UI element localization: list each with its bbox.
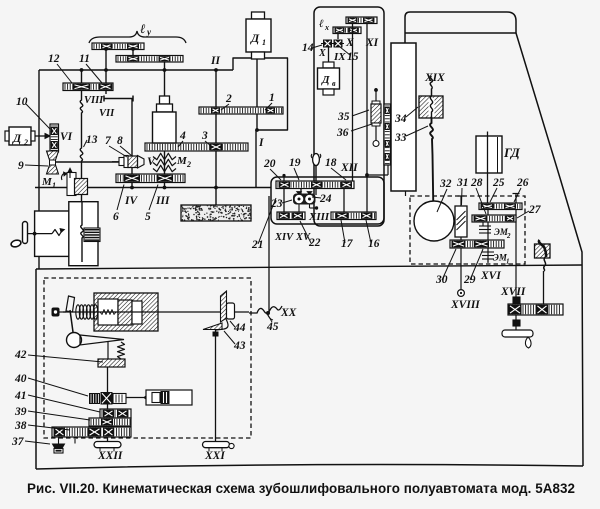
- svg-text:х: х: [324, 23, 329, 32]
- svg-text:XIII: XIII: [308, 211, 330, 223]
- svg-text:2: 2: [23, 138, 28, 147]
- svg-text:21: 21: [251, 239, 264, 251]
- svg-text:32: 32: [439, 178, 452, 190]
- svg-text:ℓ: ℓ: [319, 18, 324, 30]
- svg-text:1: 1: [52, 181, 56, 190]
- svg-text:44: 44: [233, 322, 246, 334]
- svg-text:10: 10: [16, 96, 28, 108]
- svg-text:6: 6: [113, 211, 119, 223]
- svg-text:3: 3: [201, 130, 208, 142]
- svg-text:39: 39: [14, 406, 27, 418]
- svg-text:17: 17: [341, 238, 354, 250]
- svg-text:IV: IV: [124, 195, 138, 207]
- svg-text:XI: XI: [365, 37, 379, 49]
- svg-text:43: 43: [233, 340, 246, 352]
- svg-text:11: 11: [79, 53, 90, 65]
- svg-text:42: 42: [14, 349, 27, 361]
- svg-text:31: 31: [456, 177, 469, 189]
- svg-text:8: 8: [117, 135, 123, 147]
- svg-text:1: 1: [269, 92, 275, 104]
- svg-text:2: 2: [186, 160, 191, 169]
- svg-text:13: 13: [86, 134, 98, 146]
- svg-text:38: 38: [14, 420, 27, 432]
- svg-text:9: 9: [18, 160, 24, 172]
- svg-text:Д: Д: [12, 131, 22, 145]
- svg-text:ℓ: ℓ: [140, 21, 146, 36]
- svg-text:III: III: [155, 195, 170, 207]
- svg-text:Д: Д: [321, 74, 330, 86]
- svg-text:V: V: [147, 154, 156, 168]
- svg-text:30: 30: [435, 274, 448, 286]
- svg-text:1: 1: [262, 38, 266, 47]
- svg-text:35: 35: [337, 111, 350, 123]
- svg-text:Рис. VII.20. Кинематическая сх: Рис. VII.20. Кинематическая схема зубошл…: [27, 481, 575, 496]
- svg-text:40: 40: [14, 373, 27, 385]
- svg-text:5: 5: [145, 211, 151, 223]
- svg-text:XVIII: XVIII: [450, 299, 480, 311]
- svg-text:2: 2: [225, 93, 232, 105]
- svg-text:XX: XX: [280, 307, 297, 319]
- svg-text:VI: VI: [60, 131, 73, 143]
- svg-text:34: 34: [394, 113, 407, 125]
- svg-text:19: 19: [289, 157, 301, 169]
- svg-text:XIV: XIV: [274, 232, 294, 243]
- svg-text:IX: IX: [333, 51, 346, 63]
- svg-text:I: I: [258, 137, 264, 149]
- svg-text:в: в: [332, 79, 336, 88]
- svg-text:X: X: [345, 37, 354, 49]
- svg-text:4: 4: [179, 130, 186, 142]
- svg-text:24: 24: [319, 193, 332, 205]
- svg-text:X: X: [318, 48, 326, 59]
- svg-text:41: 41: [14, 390, 27, 402]
- svg-text:29: 29: [463, 274, 476, 286]
- svg-text:XII: XII: [340, 162, 358, 174]
- svg-text:VII: VII: [99, 108, 115, 119]
- svg-text:II: II: [210, 55, 220, 67]
- svg-text:XXII: XXII: [97, 450, 123, 462]
- svg-text:33: 33: [394, 132, 407, 144]
- svg-text:12: 12: [48, 53, 60, 65]
- svg-text:45: 45: [266, 321, 279, 333]
- svg-text:25: 25: [492, 177, 505, 189]
- svg-text:28: 28: [470, 177, 483, 189]
- svg-text:VIII: VIII: [84, 95, 104, 106]
- svg-text:Д: Д: [250, 31, 260, 45]
- svg-text:ГД: ГД: [503, 145, 521, 160]
- svg-text:1: 1: [506, 258, 510, 266]
- svg-text:XIX: XIX: [424, 72, 445, 84]
- svg-text:XXI: XXI: [204, 450, 225, 462]
- svg-text:18: 18: [325, 157, 337, 169]
- svg-text:37: 37: [11, 436, 25, 448]
- svg-text:14: 14: [302, 42, 314, 54]
- svg-text:20: 20: [263, 158, 276, 170]
- svg-text:15: 15: [347, 51, 359, 63]
- svg-text:XVII: XVII: [500, 286, 526, 298]
- svg-text:16: 16: [368, 238, 380, 250]
- svg-text:22: 22: [308, 237, 321, 249]
- svg-text:26: 26: [516, 177, 529, 189]
- svg-text:36: 36: [336, 127, 349, 139]
- svg-text:2: 2: [506, 232, 511, 240]
- svg-text:27: 27: [528, 204, 542, 216]
- svg-text:XVI: XVI: [480, 270, 501, 282]
